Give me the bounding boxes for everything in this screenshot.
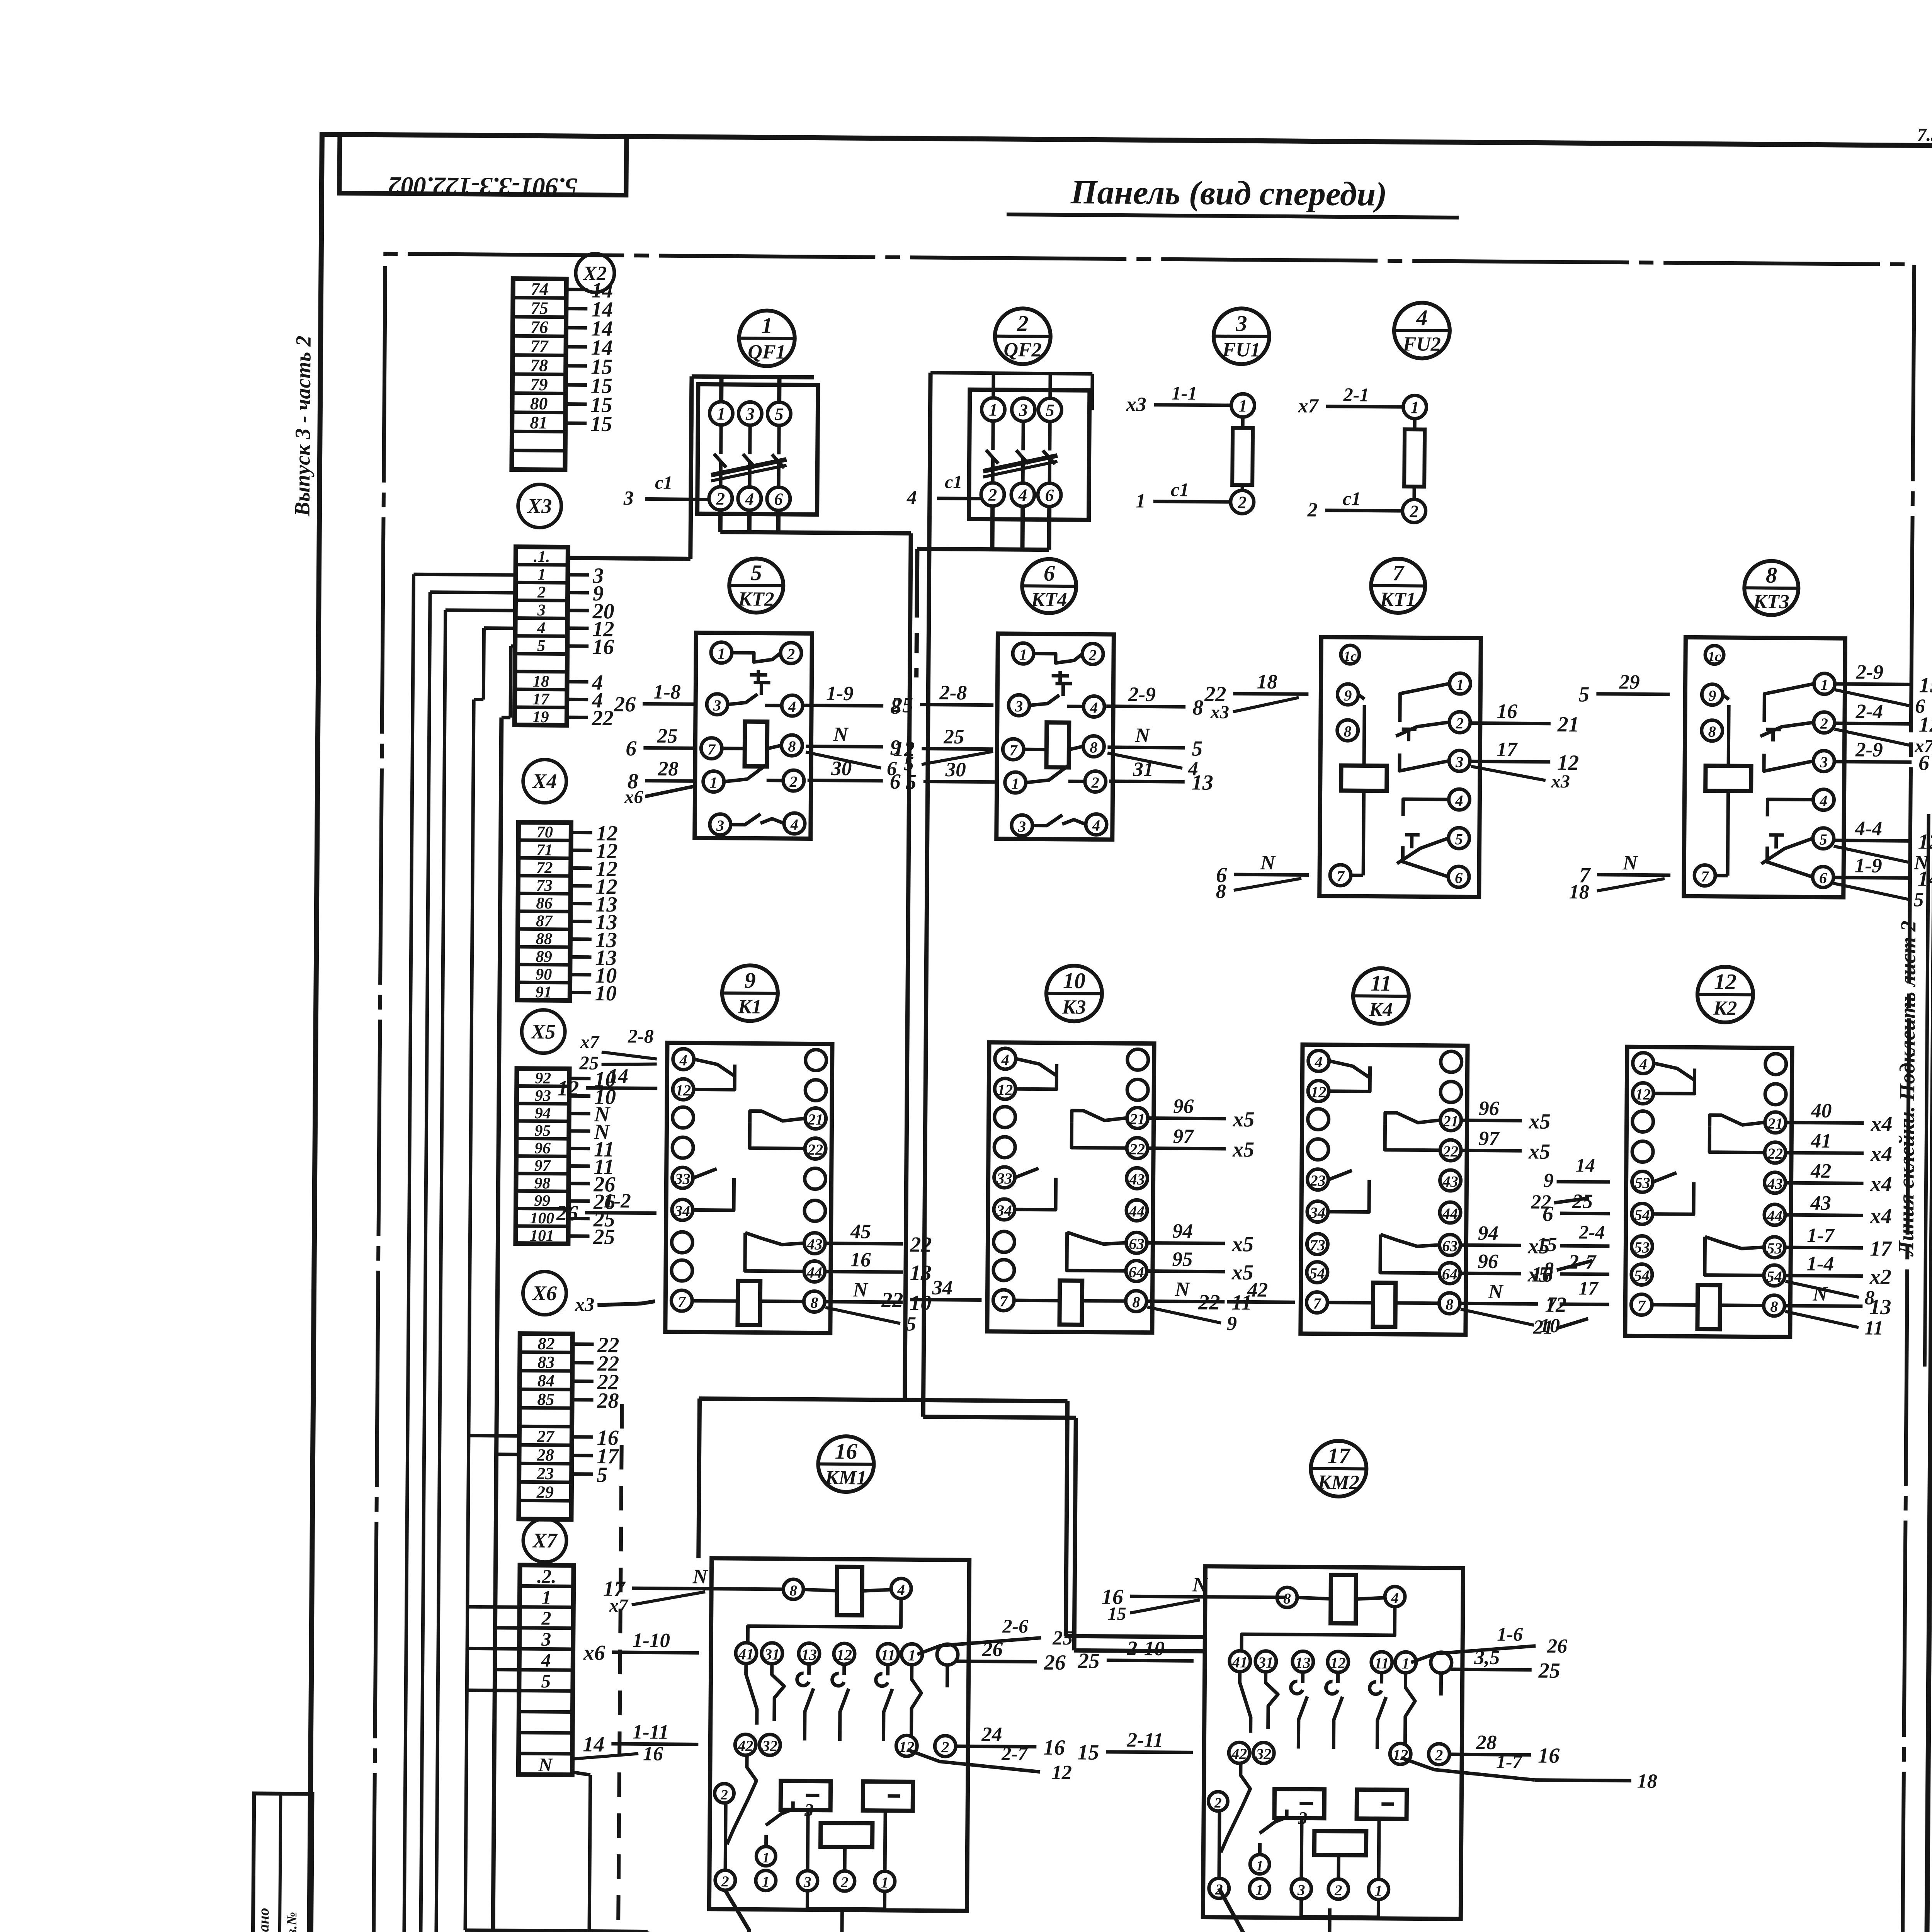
svg-text:96: 96 [1173, 1095, 1194, 1117]
svg-text:75: 75 [531, 298, 548, 318]
svg-text:5: 5 [541, 1670, 551, 1692]
svg-text:2: 2 [1334, 1882, 1342, 1899]
svg-text:91: 91 [536, 983, 552, 1001]
svg-text:40: 40 [1811, 1100, 1832, 1122]
svg-text:44: 44 [806, 1264, 822, 1281]
svg-text:12: 12 [1052, 1762, 1072, 1784]
svg-text:4-4: 4-4 [1854, 817, 1882, 840]
svg-text:53: 53 [1634, 1174, 1650, 1191]
svg-text:2: 2 [1017, 311, 1028, 336]
terminal block X2 designator [576, 253, 615, 293]
svg-text:42: 42 [1247, 1279, 1268, 1301]
sheet border frame [306, 134, 1932, 1932]
svg-text:4: 4 [1018, 485, 1027, 505]
svg-text:2: 2 [716, 489, 725, 509]
svg-text:1: 1 [537, 565, 546, 583]
page number 7.3 [1917, 124, 1932, 145]
svg-text:4: 4 [1315, 1053, 1323, 1071]
svg-text:N: N [1622, 852, 1638, 874]
svg-text:1: 1 [1012, 775, 1019, 792]
svg-text:32: 32 [1255, 1745, 1271, 1763]
svg-text:N: N [833, 723, 849, 746]
relay K4 [1301, 1044, 1468, 1335]
svg-text:26: 26 [1044, 1651, 1066, 1675]
wire stub K3 pin21: 96 x5 [1148, 1095, 1255, 1132]
wire drop to KM1 top [699, 1398, 700, 1558]
wire stub K2 pin8: N 13 11 [1785, 1282, 1891, 1339]
svg-text:41: 41 [738, 1645, 754, 1663]
svg-text:43: 43 [1810, 1192, 1831, 1214]
svg-text:7.3: 7.3 [1917, 124, 1932, 145]
svg-text:16: 16 [1538, 1744, 1560, 1768]
svg-text:98: 98 [534, 1174, 550, 1192]
svg-text:13: 13 [1295, 1654, 1311, 1671]
terminal block X7 [519, 1565, 574, 1776]
svg-text:21: 21 [1533, 1316, 1553, 1338]
wire stub KT3 pin6: 1-9 14 5 [1833, 854, 1932, 911]
wire stub K2 pin21: 40 x4 [1786, 1099, 1893, 1136]
wire harness line 1 [404, 574, 414, 1932]
svg-text:2: 2 [1409, 502, 1418, 521]
svg-text:5: 5 [1820, 831, 1827, 848]
svg-text:N: N [1260, 852, 1276, 874]
svg-text:28: 28 [1476, 1731, 1497, 1754]
svg-text:99: 99 [534, 1192, 550, 1210]
svg-text:15: 15 [1108, 1604, 1126, 1624]
svg-text:22: 22 [592, 706, 614, 730]
svg-text:x2: x2 [1869, 1265, 1891, 1289]
svg-text:97: 97 [1173, 1125, 1195, 1148]
svg-text:2: 2 [1307, 499, 1317, 521]
svg-text:44: 44 [1442, 1205, 1458, 1222]
svg-text:с1: с1 [1343, 488, 1361, 509]
svg-text:94: 94 [535, 1104, 551, 1122]
svg-text:2: 2 [721, 1873, 729, 1890]
relay KT1 [1320, 637, 1481, 897]
wire X3 row3 link [446, 610, 515, 611]
svg-text:1: 1 [1238, 396, 1247, 415]
svg-text:2: 2 [1214, 1795, 1222, 1811]
terminal block X7 designator [523, 1519, 567, 1562]
terminal block X4 designator [523, 759, 566, 803]
svg-text:2-6: 2-6 [1002, 1615, 1028, 1637]
svg-text:3: 3 [713, 697, 721, 714]
svg-text:1: 1 [1256, 1882, 1264, 1898]
svg-text:1-10: 1-10 [633, 1629, 670, 1652]
svg-text:18: 18 [1569, 881, 1589, 903]
wire stub K2 pin53L: 9 14 22 [1531, 1154, 1610, 1213]
svg-text:8: 8 [788, 738, 796, 755]
terminal block X2 [512, 278, 613, 470]
svg-text:87: 87 [536, 912, 553, 930]
svg-text:7: 7 [1701, 868, 1709, 885]
svg-text:26: 26 [982, 1638, 1003, 1661]
svg-text:12: 12 [1330, 1654, 1346, 1672]
wire stub KM2 pin41: 25 2-10 [1078, 1637, 1194, 1673]
svg-text:Панель (вид спереди): Панель (вид спереди) [1070, 173, 1387, 213]
svg-text:11: 11 [1864, 1317, 1884, 1339]
svg-text:72: 72 [536, 859, 553, 877]
svg-text:63: 63 [1442, 1237, 1458, 1255]
svg-text:4: 4 [679, 1051, 687, 1069]
svg-text:X5: X5 [530, 1020, 555, 1043]
svg-text:x5: x5 [1528, 1139, 1550, 1163]
wire stub K2 pin54L: 6 25 [1543, 1190, 1610, 1226]
wire stub KM1 right2: 24 16 / 2-7 12 [907, 1723, 1072, 1784]
svg-text:N: N [1812, 1283, 1828, 1305]
wire stub K2 pin43: 42 x4 [1786, 1160, 1892, 1196]
svg-text:96: 96 [1479, 1097, 1500, 1120]
svg-text:1-8: 1-8 [653, 681, 681, 703]
svg-text:29: 29 [536, 1483, 554, 1502]
svg-text:3: 3 [1455, 753, 1463, 770]
svg-text:4: 4 [745, 489, 754, 509]
svg-text:42: 42 [737, 1737, 753, 1754]
svg-text:2: 2 [537, 583, 546, 601]
svg-text:44: 44 [1767, 1207, 1782, 1225]
svg-text:4: 4 [1639, 1055, 1647, 1073]
wire stub KT1 pin9: 22 18 x3 [1204, 670, 1309, 723]
svg-text:8: 8 [1132, 1293, 1140, 1311]
svg-text:КМ2: КМ2 [1317, 1471, 1359, 1494]
svg-text:42: 42 [1810, 1160, 1831, 1182]
relay KT1 designator [1371, 559, 1425, 613]
svg-text:Взам.инв.№: Взам.инв.№ [283, 1912, 300, 1932]
fuse FU2 designator [1394, 303, 1450, 359]
wire stub K4 pin8: N 12 10 [1461, 1280, 1567, 1337]
svg-text:4: 4 [1819, 792, 1827, 810]
svg-text:5: 5 [1913, 889, 1923, 911]
svg-text:15: 15 [1077, 1740, 1099, 1764]
wire stub K4 pin21: 96 x5 [1462, 1097, 1551, 1134]
wire stub K3 pin8: N 11 9 [1147, 1278, 1252, 1335]
svg-text:90: 90 [536, 965, 552, 983]
svg-text:3: 3 [1820, 753, 1828, 771]
svg-text:N: N [692, 1565, 708, 1588]
svg-text:34: 34 [674, 1202, 690, 1219]
circuit breaker QF1 [697, 384, 818, 514]
svg-text:2-11: 2-11 [1126, 1729, 1163, 1752]
svg-text:КТ4: КТ4 [1031, 588, 1067, 611]
wire X6 row links [469, 1435, 519, 1454]
svg-text:11: 11 [881, 1646, 895, 1664]
svg-text:5: 5 [906, 1313, 916, 1335]
svg-text:2-9: 2-9 [1855, 738, 1883, 761]
svg-text:22: 22 [910, 1233, 932, 1257]
wire stub K2 pin53b: 15 2-4 8 [1537, 1221, 1610, 1281]
wire stub K1 pin4: x7 2-8 [579, 1025, 657, 1074]
svg-text:X6: X6 [532, 1281, 557, 1304]
svg-text:22: 22 [1198, 1290, 1220, 1314]
svg-text:3: 3 [1015, 697, 1023, 715]
svg-text:X7: X7 [532, 1529, 558, 1552]
svg-text:16: 16 [835, 1439, 857, 1464]
relay K2 designator [1697, 966, 1753, 1022]
svg-text:18: 18 [1257, 670, 1277, 693]
svg-text:100: 100 [530, 1209, 554, 1227]
svg-text:x6: x6 [583, 1641, 605, 1665]
svg-text:x3: x3 [575, 1293, 594, 1315]
wire X3 top row to QF area [568, 558, 690, 559]
svg-text:1: 1 [1456, 676, 1464, 693]
svg-text:97: 97 [534, 1157, 551, 1175]
svg-text:22: 22 [881, 1288, 903, 1312]
svg-text:1-7: 1-7 [1496, 1751, 1523, 1772]
svg-text:64: 64 [1442, 1265, 1458, 1283]
svg-text:26: 26 [1547, 1635, 1567, 1657]
svg-text:96: 96 [534, 1139, 551, 1157]
svg-text:8: 8 [1708, 723, 1716, 740]
wire stub K2 pin7: 7 17 21 [1533, 1277, 1609, 1339]
svg-text:2: 2 [1435, 1747, 1443, 1764]
svg-text:43: 43 [1129, 1170, 1145, 1188]
circuit breaker QF2 designator [995, 308, 1051, 364]
svg-text:4: 4 [1416, 305, 1427, 330]
wire label 4-с1 at QF2 [906, 471, 981, 509]
svg-text:X4: X4 [532, 769, 557, 793]
svg-text:1: 1 [1410, 398, 1419, 417]
svg-text:9: 9 [744, 968, 755, 993]
wire stub K3 pin64: 95 x5 [1148, 1248, 1254, 1285]
svg-text:.2.: .2. [537, 1566, 556, 1587]
svg-text:18: 18 [1637, 1770, 1657, 1792]
svg-text:41: 41 [1232, 1653, 1248, 1671]
svg-text:41: 41 [1811, 1130, 1832, 1152]
svg-text:25: 25 [593, 1225, 615, 1249]
svg-text:1-1: 1-1 [1172, 382, 1197, 404]
relay K1 designator [722, 965, 778, 1021]
svg-text:14: 14 [1918, 867, 1932, 891]
svg-text:x3: x3 [1551, 771, 1570, 792]
svg-text:12: 12 [837, 1646, 852, 1663]
svg-text:с1: с1 [945, 472, 963, 492]
svg-text:25: 25 [943, 726, 964, 748]
svg-text:22: 22 [807, 1141, 823, 1158]
svg-text:22: 22 [1129, 1140, 1145, 1158]
wire stub K4 pin22: 97 x5 [1462, 1127, 1551, 1164]
svg-text:16: 16 [643, 1743, 663, 1765]
wire stub KM2 right: 1-6 26 / 3,5 25 [1411, 1622, 1568, 1683]
svg-text:x3: x3 [1210, 702, 1229, 723]
svg-text:2: 2 [1237, 493, 1247, 512]
svg-text:4: 4 [541, 1650, 551, 1671]
terminal block X3 designator [518, 484, 561, 528]
svg-text:73: 73 [1310, 1236, 1325, 1253]
svg-text:4: 4 [788, 698, 796, 715]
svg-text:85: 85 [537, 1390, 554, 1409]
svg-text:3: 3 [1297, 1882, 1305, 1898]
relay KT4 [997, 634, 1114, 840]
svg-text:80: 80 [530, 394, 548, 413]
svg-text:43: 43 [806, 1235, 822, 1253]
fuse FU1 [1125, 382, 1255, 514]
svg-text:5: 5 [597, 1463, 607, 1487]
svg-text:с1: с1 [1171, 479, 1189, 500]
svg-text:12: 12 [1918, 830, 1932, 854]
svg-text:17: 17 [532, 690, 550, 708]
svg-text:2: 2 [720, 1787, 728, 1803]
svg-text:3: 3 [541, 1629, 551, 1650]
svg-text:8: 8 [1344, 723, 1352, 740]
wire QF2 left drop [923, 373, 930, 1417]
contactor KM2 designator [1311, 1441, 1367, 1497]
relay KT2 [695, 633, 812, 838]
svg-text:8: 8 [1446, 1296, 1453, 1313]
svg-text:2: 2 [941, 1738, 949, 1756]
wire harness line 3 [436, 610, 446, 1932]
svg-text:11: 11 [1371, 971, 1392, 996]
svg-text:24: 24 [981, 1723, 1002, 1746]
svg-text:23: 23 [1310, 1172, 1325, 1189]
svg-text:3: 3 [1018, 818, 1026, 835]
svg-text:95: 95 [1172, 1248, 1192, 1270]
panel outline (inner dash-dot box) [373, 254, 1914, 1932]
svg-text:94: 94 [1172, 1220, 1193, 1242]
svg-text:1c: 1c [1344, 648, 1357, 664]
svg-text:31: 31 [1258, 1654, 1274, 1671]
svg-text:86: 86 [536, 894, 553, 912]
svg-text:83: 83 [537, 1353, 554, 1372]
svg-text:К4: К4 [1369, 999, 1393, 1021]
wire stub KT4 pin3: 25 2-8 [891, 681, 994, 718]
svg-text:x5: x5 [1528, 1109, 1550, 1133]
wire stub KM2 coil: 16 N [1102, 1573, 1285, 1625]
wire stub KT3 pin5: 4-4 12 [1833, 817, 1932, 874]
contactor KM1 [709, 1558, 969, 1911]
svg-text:27: 27 [537, 1427, 555, 1446]
relay K3 [987, 1043, 1154, 1333]
relay K1 [665, 1043, 832, 1333]
wire stub K1 pin8: N 10 5 [825, 1279, 932, 1335]
wire X7 row links [467, 1607, 520, 1690]
sheet title: Панель (вид спереди) [1007, 173, 1459, 218]
svg-text:23: 23 [536, 1464, 554, 1483]
svg-text:81: 81 [530, 413, 548, 432]
svg-text:7: 7 [1009, 742, 1018, 759]
svg-text:7: 7 [1638, 1297, 1646, 1314]
svg-text:5: 5 [1578, 682, 1589, 706]
wire stub KM2 right2: 28 16 / 1-7 18 [1401, 1731, 1658, 1793]
wire stub K2 pin44: 43 x4 [1786, 1192, 1892, 1228]
svg-text:4: 4 [537, 619, 546, 637]
svg-text:7: 7 [1393, 560, 1405, 585]
contactor KM2 [1203, 1566, 1463, 1919]
wire stub KT2 pin8: N 9 6 [806, 723, 901, 780]
svg-text:95: 95 [534, 1122, 551, 1139]
svg-text:14: 14 [583, 1732, 604, 1756]
svg-text:1-4: 1-4 [1807, 1252, 1834, 1275]
svg-text:1: 1 [1256, 1858, 1264, 1874]
svg-text:25: 25 [579, 1052, 599, 1073]
svg-text:54: 54 [1634, 1206, 1650, 1223]
svg-text:2-9: 2-9 [1128, 683, 1156, 706]
svg-text:6: 6 [1819, 869, 1827, 887]
svg-text:1: 1 [717, 404, 726, 423]
svg-text:21: 21 [1767, 1115, 1783, 1132]
svg-text:.1.: .1. [534, 548, 550, 566]
svg-text:7: 7 [707, 741, 716, 758]
svg-text:79: 79 [530, 375, 548, 394]
wire harness line 2 [420, 592, 430, 1932]
circuit breaker QF1 designator [739, 310, 795, 366]
relay K3 designator [1046, 966, 1102, 1022]
svg-text:101: 101 [530, 1227, 554, 1245]
svg-text:16: 16 [850, 1248, 871, 1271]
svg-text:8: 8 [1766, 563, 1777, 588]
wire stub K4 pin64: 96 x5 [1461, 1250, 1550, 1287]
svg-text:63: 63 [1129, 1235, 1144, 1252]
svg-text:8: 8 [1770, 1298, 1778, 1315]
svg-text:31: 31 [1133, 758, 1153, 781]
svg-text:70: 70 [536, 823, 553, 841]
svg-text:6: 6 [1455, 869, 1463, 886]
svg-text:15: 15 [1537, 1234, 1557, 1256]
wire stub K2 pin53: 1-7 17 [1786, 1224, 1893, 1261]
svg-text:74: 74 [531, 279, 549, 299]
terminal block X4 [517, 821, 618, 1005]
svg-text:x4: x4 [1870, 1112, 1892, 1136]
svg-text:Согласовано: Согласовано [254, 1908, 272, 1932]
svg-text:54: 54 [1767, 1268, 1782, 1285]
wire stub K2 pin54b: 16 2-7 [1531, 1250, 1610, 1287]
svg-text:12: 12 [1714, 969, 1736, 994]
wire stub K2 pin22: 41 x4 [1786, 1129, 1893, 1166]
svg-text:42: 42 [1231, 1745, 1247, 1762]
svg-text:16: 16 [1043, 1736, 1065, 1760]
terminal block X3 [515, 547, 615, 730]
svg-text:17: 17 [1497, 738, 1518, 761]
svg-text:30: 30 [945, 759, 966, 781]
svg-text:1-9: 1-9 [826, 682, 854, 705]
svg-text:76: 76 [531, 318, 548, 337]
svg-text:22: 22 [1442, 1143, 1458, 1160]
svg-text:1-11: 1-11 [632, 1721, 669, 1743]
wire stub K1 pin7: x3 [575, 1293, 655, 1315]
svg-text:53: 53 [1634, 1238, 1650, 1256]
svg-text:3: 3 [716, 817, 724, 834]
svg-text:2-4: 2-4 [1855, 700, 1883, 723]
fuse FU2 [1297, 383, 1426, 522]
svg-text:12: 12 [997, 1081, 1013, 1099]
wire stub KT3 pin7: 7 N 18 [1569, 851, 1671, 904]
svg-text:34: 34 [932, 1277, 952, 1299]
svg-text:84: 84 [537, 1371, 554, 1390]
svg-text:1: 1 [761, 313, 772, 338]
wire stub KT4 pin2: 31 13 [1109, 758, 1214, 795]
svg-text:2: 2 [787, 645, 795, 663]
svg-text:13: 13 [1869, 1295, 1891, 1319]
wire label x4 2-5 at KM2 bottom [1202, 1888, 1244, 1932]
svg-text:73: 73 [536, 876, 553, 895]
svg-text:10: 10 [595, 981, 617, 1005]
svg-text:25: 25 [657, 725, 678, 747]
svg-text:x6: x6 [624, 787, 643, 807]
wire QF1 top feed [691, 376, 814, 500]
svg-text:12: 12 [1635, 1085, 1651, 1103]
svg-text:22: 22 [1767, 1145, 1783, 1162]
svg-text:N: N [852, 1279, 868, 1301]
svg-text:2-1: 2-1 [1343, 384, 1369, 405]
wire stub KT2 pin3: 26 1-8 [614, 680, 697, 717]
wire stub KT2 pin7: 6 25 [626, 724, 697, 761]
svg-text:4: 4 [897, 1582, 905, 1598]
svg-text:QF2: QF2 [1003, 339, 1042, 361]
svg-text:FU2: FU2 [1402, 333, 1441, 355]
svg-text:8: 8 [1192, 696, 1203, 719]
svg-text:N: N [538, 1754, 553, 1776]
svg-text:6: 6 [774, 490, 783, 509]
svg-text:КМ1: КМ1 [825, 1467, 867, 1489]
